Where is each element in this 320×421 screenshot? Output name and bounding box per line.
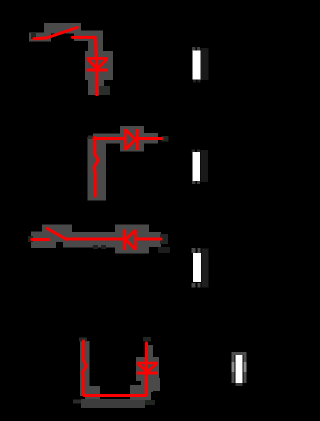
component LED3 pins top <box>192 248 201 253</box>
terminal cap loop right wire top <box>143 337 151 342</box>
wire S1 right to corner down <box>73 37 97 57</box>
component LED2 pins bottom <box>192 181 200 184</box>
diode D3 (pointing left) <box>125 230 136 251</box>
component LED3 body shadow bar <box>202 249 209 288</box>
terminal cap loop left wire top <box>79 338 87 342</box>
component LED1 body shadow bar <box>201 48 209 80</box>
wire corner node to D2 and down (with kink) <box>94 138 124 197</box>
terminal cap S1 left end <box>31 33 36 39</box>
diode D2 (pointing right) <box>126 129 138 150</box>
terminal cap end of long wire <box>158 234 170 253</box>
wire right of D2 <box>139 137 162 140</box>
highlight strip below diode D4 <box>141 378 160 392</box>
highlight strip loop left vertical wire <box>80 341 100 399</box>
highlight box diode D2 <box>120 126 144 152</box>
long wire to D3 <box>66 238 124 241</box>
highlight box around bottom-right corner <box>130 385 151 400</box>
component LED3 pins bottom <box>192 283 201 288</box>
highlight box diode D3 <box>115 225 149 254</box>
diode D4 (pointing down) <box>137 363 158 373</box>
component LED2 body <box>193 152 201 181</box>
highlight box wire top-right <box>74 31 103 42</box>
highlight box diode D4 <box>136 357 159 381</box>
terminal cap left of corner node <box>88 136 94 140</box>
component socket frame right bar <box>244 352 247 383</box>
wire below D1 <box>96 57 99 96</box>
terminal dots below long wire <box>93 245 106 249</box>
terminal cap S2 left end <box>28 236 33 242</box>
highlight band loop bottom wire <box>81 399 145 408</box>
wire S1 left <box>34 37 47 41</box>
highlight strip loop right vertical wire top <box>148 345 153 358</box>
component LED2 pins top <box>192 150 201 153</box>
component socket frame left bar <box>232 352 235 383</box>
highlight strip below diode D1 <box>88 80 110 95</box>
component socket frame top bar <box>232 352 247 355</box>
highlight box switch S1 lever <box>44 23 81 34</box>
loop wire left vertical with kink, bottom, right vertical <box>83 341 147 396</box>
component LED2 body shadow bar <box>201 150 209 182</box>
component LED3 body <box>193 253 201 282</box>
highlight box switch S2 lever <box>42 225 72 243</box>
component LED1 body <box>193 51 201 80</box>
highlight box switch S1 left wire <box>29 33 51 42</box>
component socket bottom mark <box>236 383 243 386</box>
component LED1 pins top <box>192 47 200 51</box>
terminal mark below bottom-right corner <box>145 400 155 405</box>
switch S2 lever <box>48 229 68 240</box>
highlight box switch S2 left wire <box>31 232 56 249</box>
terminal mark below bottom-left corner <box>73 400 81 404</box>
component LED1 pins bottom <box>193 80 201 83</box>
highlight box diode D2 right wire <box>139 133 158 144</box>
component socket white body <box>236 355 243 383</box>
highlight box long wire to diode D3 <box>63 232 118 248</box>
highlight strip wire into diode D1 <box>88 38 103 52</box>
highlight box wire right of D3 <box>145 232 161 247</box>
terminal cap node right of D2 <box>162 136 169 142</box>
wire right of D3 <box>137 238 161 241</box>
highlight box diode D1 <box>85 51 113 80</box>
switch S1 lever <box>47 28 78 39</box>
highlight box diode D2 left wire <box>93 134 128 144</box>
highlight strip node corner and vertical wire <box>88 137 107 201</box>
wire S2 left <box>32 238 49 241</box>
diode D1 (pointing down) <box>87 58 108 70</box>
